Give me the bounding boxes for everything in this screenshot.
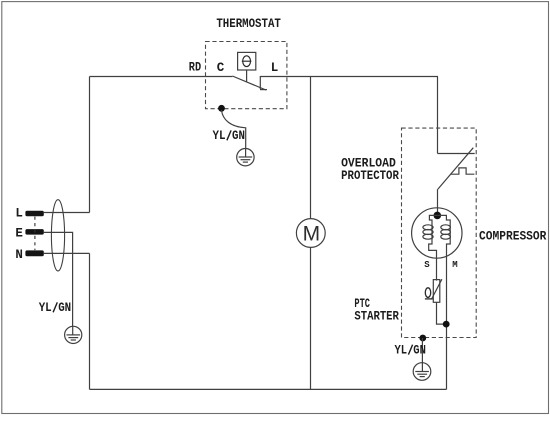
theta symbol (242, 56, 252, 67)
svg-text:YL: YL (395, 344, 408, 358)
wire top right horizontal (260, 76, 438, 78)
wire case ground (421, 338, 423, 363)
main coil loops (441, 225, 451, 239)
overload protector blade diagonal (438, 148, 473, 189)
svg-text:GN: GN (232, 129, 245, 143)
junction thermostat ground (218, 105, 225, 112)
svg-text:L: L (271, 61, 279, 75)
L contact stub (259, 76, 261, 89)
svg-text:S: S (424, 260, 430, 270)
svg-text:STARTER: STARTER (354, 310, 399, 324)
ground symbol compressor (413, 363, 431, 381)
svg-text:L: L (15, 207, 23, 221)
ground symbol left (65, 326, 82, 343)
svg-text:C: C (217, 61, 225, 75)
label YL/GN left (39, 301, 71, 315)
svg-text:YL: YL (213, 129, 226, 143)
svg-text:YL: YL (39, 301, 52, 315)
wire left vertical upper (89, 77, 91, 213)
wire bottom horizontal (90, 388, 447, 390)
junction dot case ground (419, 335, 426, 342)
blade end tick (260, 89, 267, 91)
wire overload to winding (437, 189, 439, 212)
wire curve to thermostat ground (222, 110, 246, 149)
PTC body (433, 280, 440, 303)
wire motor branch upper (310, 77, 312, 219)
thermostat dashed box (206, 42, 287, 109)
winding outline right (main) (437, 215, 450, 389)
svg-text:N: N (15, 248, 23, 262)
PTC theta symbol (425, 288, 433, 299)
label YL/GN thermostat (213, 129, 246, 143)
wire left vertical lower (89, 253, 91, 389)
wire motor branch lower (310, 247, 312, 389)
PTC diagonal (431, 279, 442, 299)
switch blade (232, 76, 266, 90)
winding outline left (start) (429, 215, 438, 280)
terminal pin N (25, 250, 43, 256)
overload heater step (451, 168, 475, 174)
ground symbol thermostat (237, 149, 254, 166)
svg-text:PROTECTOR: PROTECTOR (341, 169, 399, 183)
svg-text:E: E (15, 226, 23, 240)
wire top left horizontal (90, 76, 233, 78)
wire E terminal (44, 232, 73, 326)
plug ellipse (51, 200, 64, 271)
svg-text:RD: RD (189, 61, 202, 75)
wire N terminal (44, 252, 90, 254)
terminal pin L (25, 211, 43, 217)
sensor stem (246, 70, 248, 82)
dashed link between pins (34, 217, 36, 251)
terminal pin E (25, 229, 43, 235)
compressor dashed box (402, 128, 477, 337)
thermostat sensor box (238, 52, 256, 70)
wire PTC to junction (437, 302, 447, 324)
svg-text:GN: GN (413, 344, 426, 358)
motor M circle (296, 219, 325, 248)
overload protector contact horizontal (438, 153, 475, 155)
start coil loops (423, 225, 433, 239)
svg-text:THERMOSTAT: THERMOSTAT (216, 17, 281, 31)
wire L terminal (44, 212, 90, 214)
svg-text:M: M (303, 222, 321, 245)
junction dot starter/main (443, 321, 450, 328)
label YL/GN compressor (395, 344, 426, 358)
winding junction dot (434, 212, 442, 220)
compressor winding circle (412, 208, 462, 258)
svg-text:COMPRESSOR: COMPRESSOR (479, 229, 547, 243)
wire right drop to overload (437, 77, 439, 154)
svg-text:GN: GN (58, 301, 71, 315)
svg-text:M: M (452, 260, 457, 270)
